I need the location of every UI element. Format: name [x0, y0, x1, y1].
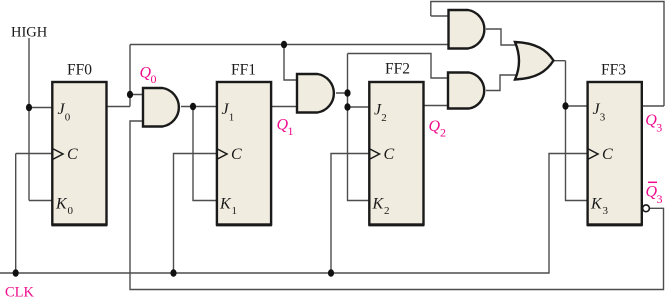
svg-text:3: 3	[657, 192, 663, 206]
svg-text:3: 3	[600, 112, 606, 124]
svg-text:C: C	[67, 146, 78, 163]
svg-text:FF2: FF2	[385, 61, 410, 78]
svg-text:K: K	[590, 196, 603, 213]
svg-text:K: K	[55, 196, 68, 213]
svg-text:1: 1	[288, 124, 294, 138]
svg-text:C: C	[384, 146, 395, 163]
svg-text:2: 2	[381, 112, 387, 124]
svg-text:0: 0	[151, 72, 157, 86]
svg-text:2: 2	[440, 126, 446, 140]
svg-text:1: 1	[232, 205, 238, 217]
svg-text:C: C	[602, 146, 613, 163]
svg-text:C: C	[231, 146, 242, 163]
svg-text:2: 2	[384, 205, 390, 217]
svg-text:0: 0	[65, 112, 71, 124]
svg-text:Q: Q	[429, 118, 441, 135]
svg-text:K: K	[372, 196, 385, 213]
svg-text:FF1: FF1	[231, 62, 256, 79]
svg-text:CLK: CLK	[5, 284, 35, 298]
svg-text:3: 3	[603, 205, 609, 217]
svg-text:1: 1	[229, 112, 235, 124]
svg-text:FF3: FF3	[601, 62, 626, 79]
svg-text:K: K	[219, 196, 232, 213]
svg-text:0: 0	[68, 205, 74, 217]
svg-text:HIGH: HIGH	[11, 24, 48, 40]
svg-text:3: 3	[656, 121, 662, 135]
svg-text:FF0: FF0	[67, 62, 92, 79]
